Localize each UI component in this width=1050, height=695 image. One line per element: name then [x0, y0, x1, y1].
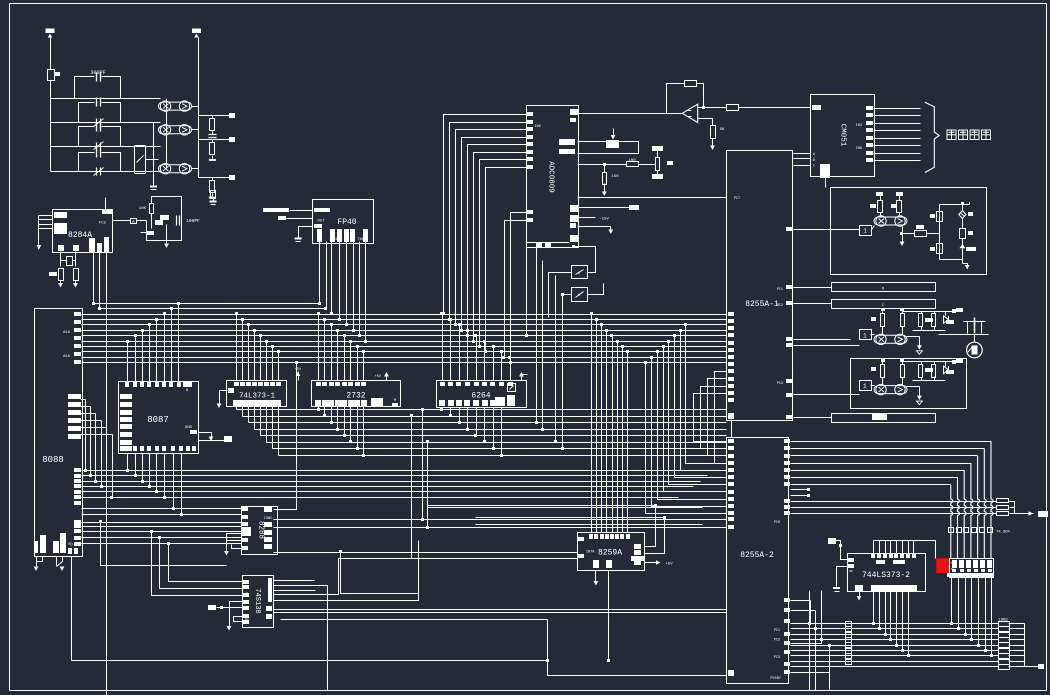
pins ADC0809 right top	[570, 109, 578, 115]
wire opto3 right to VCC2 rail	[192, 168, 199, 170]
capacitor C2 loop	[79, 103, 95, 123]
wire 8088 gnd 2	[56, 557, 58, 567]
wire 74LS373-1 left to ground	[220, 391, 228, 405]
wire CM051 bottom bar down	[825, 178, 827, 188]
wire 8259A gnd	[595, 571, 597, 582]
svg-text:FP40: FP40	[337, 218, 356, 227]
pins ADC0809 left lower	[527, 210, 533, 214]
svg-text:A: A	[246, 592, 248, 595]
wires latch bottom verticals to matrix	[873, 591, 875, 624]
label pad right of reference	[667, 161, 673, 165]
diode zener	[944, 316, 949, 324]
cpu U3 8088	[35, 309, 83, 557]
sram U7 6264	[437, 381, 527, 408]
wire CLK line down to bus	[93, 252, 95, 304]
wires 6264 bottom pins down	[442, 408, 444, 410]
wire 8284A right to J1	[113, 220, 131, 222]
wire ADC0809 lower-left pin 2	[505, 221, 528, 358]
pins 74LS373-2 bottom	[871, 585, 877, 591]
svg-text:IN0: IN0	[535, 125, 541, 129]
pins 8284A bottom	[58, 245, 64, 251]
resistor R3 below pin1	[59, 269, 64, 281]
wire READY line down	[99, 253, 101, 309]
ground box1 right	[965, 265, 970, 270]
wires bus staircase group B to 8255A-2	[646, 363, 727, 514]
wire digit line 1	[791, 484, 951, 486]
junction 8284A clk to bus	[92, 302, 95, 305]
svg-text:IN6: IN6	[856, 147, 862, 151]
pins 8259A top	[589, 534, 593, 539]
pins ADC0809 bottom	[536, 242, 542, 248]
connector J2 FP40	[313, 200, 374, 244]
bus controller U8 8288	[242, 507, 278, 555]
ground arrow	[917, 396, 922, 401]
svg-text:OE: OE	[849, 570, 853, 573]
terminal pad segment common	[1038, 511, 1048, 517]
sensor brace	[925, 102, 939, 172]
ground latch left	[833, 587, 840, 589]
resistor R30 horizontal	[915, 231, 927, 237]
svg-text:GND: GND	[185, 426, 193, 430]
pins 74S138 left	[243, 580, 249, 584]
svg-text:8255A-1: 8255A-1	[745, 300, 779, 309]
wire ADC eoc line to 8255A-1	[578, 197, 727, 199]
wire digit line 4	[791, 463, 971, 465]
resistor array squares 510	[949, 528, 954, 533]
pins FP40 bottom	[317, 229, 322, 242]
wire collector rail	[903, 311, 953, 313]
wires 8255A-1 lower pins loop to 8255A-2 top pins	[715, 372, 727, 464]
wire pc into row A	[794, 345, 860, 347]
wire xbox1 output up	[574, 247, 596, 273]
opto coupler	[874, 384, 907, 394]
pins 8087 bottom	[125, 446, 129, 451]
ground arrow	[917, 345, 922, 350]
address bus A0-A11 horizontal lines	[82, 304, 727, 363]
wire 8259A +5V	[645, 562, 657, 564]
wire digit line 6	[791, 448, 985, 450]
opto coupler box1	[874, 216, 907, 226]
resistor R24 150 to ground	[603, 163, 606, 166]
pins 8255A-1 left data	[728, 312, 734, 316]
svg-text:744LS373-2: 744LS373-2	[862, 571, 910, 580]
svg-text:PC2: PC2	[777, 304, 783, 308]
trimmer capacitor CT2 on rail	[96, 143, 98, 151]
resistor right pullup	[901, 314, 905, 327]
led display module	[947, 559, 994, 578]
pin bar FP40 left	[314, 224, 322, 228]
svg-text:72: 72	[950, 568, 954, 571]
decoder U9 74S138	[243, 576, 274, 628]
pins 2732 top	[316, 382, 321, 386]
wire 8284A top pin up	[105, 198, 107, 211]
wire emitter rail	[907, 336, 920, 338]
svg-text:300PF: 300PF	[90, 70, 105, 76]
terminal pad 1	[229, 113, 235, 118]
pins 6264 top	[440, 382, 445, 386]
wires ADC0809 analog input staircase	[444, 115, 528, 315]
vcc bars box1	[876, 192, 883, 196]
wire 8288 to 8259 line	[274, 552, 578, 554]
pins 8088 right lower	[74, 468, 81, 472]
wires 8255A-2 right lower pins into matrix	[791, 600, 811, 602]
capacitor C4 loop	[79, 153, 95, 172]
wire 8259A right pin up 2	[645, 518, 665, 554]
svg-text:-15V: -15V	[599, 218, 609, 222]
wire resistor common vertical	[1024, 624, 1026, 667]
capacitor C3 loop	[79, 127, 95, 147]
capacitor C1 loop	[75, 77, 95, 99]
resistor R23 100	[627, 162, 639, 167]
wires display bottom verticals to matrix	[951, 578, 953, 624]
ground under resistor	[209, 159, 216, 161]
wire into gate	[831, 229, 860, 231]
resistor output 1	[919, 314, 923, 327]
svg-text:PC3: PC3	[777, 382, 783, 386]
wire 8259A right pin up 1	[645, 506, 656, 547]
clock generator U2 8284A	[53, 210, 113, 253]
wire digit line 2	[791, 477, 958, 479]
svg-text:74.3D4: 74.3D4	[996, 531, 1010, 535]
wire digit line 5	[791, 455, 978, 457]
pins ADC0809 left inputs	[527, 112, 533, 116]
wire row rail 4	[51, 171, 161, 173]
wire RESET long vertical	[106, 253, 108, 695]
wires 8088 mid pins to staircase	[81, 399, 86, 401]
tag R31	[930, 214, 935, 218]
pins 8255A-2 right lower	[784, 598, 790, 602]
ground under R3	[58, 283, 63, 288]
gate box 1	[860, 330, 872, 340]
wire ADC to op-amp	[578, 113, 683, 115]
wire digit line 3	[791, 470, 965, 472]
pins 74LS373-2 top	[871, 554, 875, 558]
terminal pad 2	[229, 137, 235, 142]
pins 8255A-2 right upper	[784, 439, 790, 443]
wire bar2 to FP40	[286, 218, 313, 220]
wire 8087 gnd right	[199, 432, 212, 434]
wire 8288 to 8255 CS lines	[274, 519, 727, 521]
wire emitter rail	[907, 386, 920, 388]
wire latch OE loop	[837, 567, 849, 587]
segment limit resistors right	[997, 499, 1009, 503]
diode zener	[944, 366, 949, 374]
power +5V above 6264	[521, 375, 523, 381]
pins 8259A right	[634, 544, 641, 549]
data bus lower band D0-D7	[82, 470, 715, 472]
tag zener	[946, 320, 954, 324]
wire ADC vref to resistor 100	[578, 164, 627, 166]
wire top rail box1	[940, 204, 970, 206]
tag R33	[968, 231, 973, 235]
wire staircase left vert	[101, 523, 227, 566]
wire left feed to latch	[828, 538, 836, 544]
svg-text:A19: A19	[63, 331, 71, 335]
pin 2732 right small	[392, 403, 398, 407]
label pad left of R3	[49, 272, 57, 276]
opto coupler	[874, 334, 907, 344]
transistor Q1 blobs	[155, 220, 163, 225]
wire staircase to 74S138 c	[169, 544, 243, 582]
crystal Y2 between pins	[61, 260, 67, 262]
wire opto input rail B	[166, 99, 168, 169]
resistor R33	[962, 219, 964, 229]
wire digit line 7	[791, 441, 992, 443]
wire xbox1 input	[549, 273, 572, 318]
resistor R32	[937, 244, 943, 254]
port bar lower	[832, 414, 936, 423]
wire under outputs	[921, 327, 923, 331]
svg-text:B: B	[186, 389, 188, 393]
svg-text:100: 100	[628, 159, 636, 163]
svg-text:TX6: TX6	[357, 238, 363, 242]
wires FP40 pins down to bus	[319, 242, 321, 304]
wires bus to latch U5 top pins	[236, 315, 238, 381]
opto coupler U10	[159, 101, 192, 111]
pins 8088 right middle	[68, 394, 81, 399]
svg-text:2732: 2732	[346, 392, 365, 401]
svg-text:INTA: INTA	[586, 551, 595, 555]
adc U14 ADC0809	[527, 106, 579, 248]
svg-text:RQ: RQ	[68, 543, 72, 547]
wire VCC1 rail down	[50, 38, 52, 70]
capacitor C5 plates	[209, 134, 217, 136]
wire gate to opto	[871, 334, 875, 336]
wire 8288 right pin up to bus	[274, 363, 297, 510]
pins 74LS373-1 bottom	[233, 400, 239, 406]
trimmer capacitor CT1 on rail	[96, 119, 98, 127]
svg-text:CM051: CM051	[839, 124, 847, 147]
wires 2732 bottom pins down	[318, 407, 320, 410]
wire ADC0809 lower-left pin 1	[511, 213, 528, 363]
wire left input rail down	[38, 216, 40, 246]
svg-text:PC2: PC2	[774, 639, 780, 643]
resistor R22 to ground	[711, 126, 716, 139]
tag R32	[930, 247, 935, 251]
resistor right pullup	[901, 365, 905, 378]
svg-text:1: 1	[863, 228, 867, 235]
vcc pad right	[952, 309, 956, 313]
wire matrix out to terminal	[1025, 666, 1039, 668]
ground under R4	[73, 283, 78, 288]
pin bar FP40 top-left	[314, 208, 330, 212]
wires bus to ram U7 top pins	[442, 315, 444, 381]
tag zener	[946, 370, 954, 374]
reference element vertical	[652, 146, 663, 151]
wire ADC clock stub to arrow	[578, 227, 611, 231]
ground left input rail	[37, 245, 42, 250]
svg-text:A: A	[132, 219, 135, 225]
pins ADC0809 right lower	[570, 205, 578, 212]
pin block 8284A left	[54, 223, 67, 234]
pins 8087 top	[125, 382, 129, 387]
stub wires 8255A-2 right	[791, 489, 808, 491]
wire opto input rail A	[153, 123, 155, 186]
ground under oscillator	[166, 241, 168, 246]
svg-text:74L373-1: 74L373-1	[239, 393, 276, 401]
wire output line 1	[199, 115, 230, 117]
pin PCLK top of 8284A	[102, 210, 112, 214]
pins 8255A-1 right	[786, 285, 792, 289]
svg-text:C: C	[813, 165, 815, 169]
wire bottom rail box1	[940, 259, 963, 261]
wire top rail	[882, 362, 884, 365]
wire row rail 1	[51, 98, 161, 100]
wire staircase v4	[341, 553, 419, 594]
wire VCC2 rail down	[198, 38, 200, 178]
svg-text:PC7: PC7	[734, 197, 740, 201]
tag right of diode	[968, 212, 973, 216]
wire ADC start line with pad	[578, 207, 630, 209]
control bus lines from 8088 lower pins	[82, 508, 242, 510]
wire int lines above 8259A	[428, 505, 656, 507]
resistor left pullup	[881, 365, 885, 378]
wire opto2 right to VCC2 rail	[192, 129, 199, 131]
data bus staircase from latch outputs	[236, 407, 238, 410]
wire row rail 2	[51, 122, 161, 124]
wire 74S138 select line B	[274, 586, 328, 691]
svg-text:1: 1	[863, 383, 867, 390]
wire gate to opto	[871, 385, 875, 387]
wire pc2 to bar C	[794, 303, 832, 305]
resistor output 2	[932, 365, 936, 378]
wire bar to FP40	[290, 210, 313, 212]
pin 8255A-2 bottom-left	[728, 670, 734, 676]
resistor output 1	[919, 365, 923, 378]
pin 74LS373-1 left	[228, 388, 234, 393]
wire ADC bottom to xbox loop	[527, 243, 570, 247]
pins 8259A left	[578, 537, 584, 541]
resistor R12 on output 3	[212, 178, 214, 181]
jumper J1 box	[131, 219, 137, 224]
svg-text:8087: 8087	[147, 415, 169, 425]
pins 8255A-1 bottom	[728, 413, 734, 419]
pin CM051 bottom bar	[820, 164, 830, 178]
ppi U17 8255A-1	[727, 151, 793, 421]
gate box 1	[860, 381, 872, 391]
svg-text:PC1: PC1	[777, 288, 783, 292]
pins 8088 right upper	[74, 312, 81, 316]
wires CM051 ABC to 8255A-1	[794, 153, 811, 155]
wire output line 2	[199, 139, 230, 141]
interrupt controller U13 8259A	[578, 533, 645, 571]
pins 74LS373-2 left	[848, 558, 854, 562]
diode D1 diamond	[959, 211, 966, 219]
wire staircase to 74S138 a	[152, 532, 243, 596]
wire output line 3	[199, 177, 230, 179]
capacitor C6 plates	[176, 216, 178, 226]
analog mux U16 CM051	[811, 95, 875, 177]
pins 8288 left	[242, 507, 248, 511]
wire ADC ref loop	[578, 142, 639, 154]
pins CM051 right channels	[866, 106, 873, 110]
svg-text:PC1: PC1	[774, 629, 780, 633]
wire staircase v3	[427, 443, 429, 528]
control lines 8088 to 8288	[82, 522, 242, 524]
wire row rail 3	[51, 146, 161, 148]
motor M1 circle	[967, 342, 983, 358]
wires adc support verticals down	[536, 247, 538, 423]
coprocessor U4 8087	[119, 382, 199, 454]
wire 8284A bottom pin1 down	[60, 252, 62, 267]
tag above R30	[916, 225, 924, 229]
power symbol VCC2	[192, 29, 201, 34]
wires bus to eprom U6 top pins	[318, 315, 320, 381]
resistor R5 10K	[150, 204, 154, 214]
wire collector rail	[903, 361, 953, 363]
tag output 1	[925, 368, 933, 372]
wire staircase to 74S138 b	[160, 538, 243, 589]
wire opto1 right to VCC2 rail	[192, 106, 199, 108]
vcc pad right	[952, 360, 956, 364]
potentiometer RP1	[606, 140, 619, 148]
ppi U18 8255A-2	[727, 438, 789, 684]
svg-text:TX1: TX1	[331, 238, 337, 242]
op-amp U15 triangle	[682, 104, 697, 122]
red highlight block	[936, 558, 949, 573]
ground opto rail A	[150, 186, 157, 188]
wire op-amp input-	[698, 119, 713, 126]
label connect-to-sensor (CJK)	[947, 130, 991, 140]
oscillator circuit outline	[147, 197, 182, 241]
pin strip 74S138 right	[268, 578, 272, 602]
svg-text:IOWC: IOWC	[264, 517, 272, 521]
resistor box1 left a	[880, 196, 882, 201]
wires CM051 to sensors	[874, 108, 921, 110]
resistor box1 left b	[899, 196, 901, 201]
component box with slash (varactor)	[135, 146, 146, 174]
wire op-amp input+	[698, 107, 727, 109]
port bar C	[832, 300, 936, 309]
wire 8255A-1 pc6 to box1	[786, 227, 792, 231]
wire load bottom rail	[939, 334, 989, 336]
wire 8088 gnd 1	[36, 557, 38, 567]
wire latch-left bottom pin down	[859, 591, 861, 598]
wire under outputs	[921, 378, 923, 381]
svg-text:8088: 8088	[42, 455, 64, 465]
wire opto out to resistor	[902, 227, 904, 234]
wires 74LS373-2 top loop to display	[873, 541, 875, 555]
power +5V above 2732	[386, 375, 388, 381]
wire 74S138 select line D	[274, 559, 419, 595]
pins 8288 right	[264, 507, 272, 512]
wire staircase v2	[412, 417, 578, 559]
svg-text:PC0: PC0	[774, 521, 780, 525]
svg-text:8255A-2: 8255A-2	[740, 551, 774, 560]
wire J1 to osc	[137, 220, 147, 222]
svg-text:8259A: 8259A	[598, 549, 622, 558]
crystal Y1	[48, 70, 55, 81]
svg-text:5K: 5K	[720, 128, 725, 132]
opto coupler U12	[159, 164, 192, 174]
svg-text:E1: E1	[245, 618, 249, 621]
wire pc3 into box2	[794, 394, 860, 396]
gate box 1 in box1	[860, 226, 872, 236]
wire 74S138 select line C	[274, 590, 316, 592]
ground box1 center	[902, 234, 904, 243]
pins 8259A bottom	[593, 560, 599, 568]
wires 8087 top pins to bus	[127, 342, 129, 382]
wire FP40 left lower to ground	[299, 227, 313, 238]
pin CLK top-left of 8284A	[54, 212, 67, 218]
tag resistor b	[891, 204, 897, 208]
port bar D	[832, 283, 936, 292]
pins 6264 bottom	[439, 400, 445, 406]
wire left rail	[50, 81, 52, 172]
segment feed lines horizontal	[791, 501, 997, 503]
wire varactor to opto3	[146, 159, 159, 161]
resistor R4 below pin2	[74, 269, 79, 281]
